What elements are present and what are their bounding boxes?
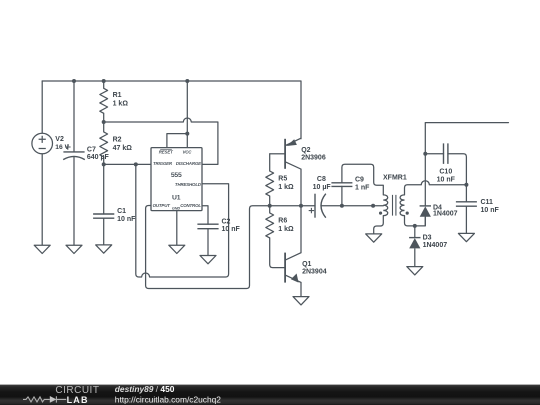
node R1-R2 [102,120,106,124]
svg-text:Q2: Q2 [301,147,310,154]
svg-text:D3: D3 [423,235,432,242]
wire C7 branch top [73,81,75,152]
svg-text:LAB: LAB [67,395,89,405]
svg-text:OUTPUT: OUTPUT [153,203,171,208]
wire transformer secondary bottom to diode node [405,216,426,226]
wire C9 bottom lead [341,186,343,205]
voltage source V2 [32,133,53,154]
resistor R6 [266,213,274,238]
wire CONTROL pin to C2 [202,206,208,224]
ground for C11 [458,233,474,241]
svg-text:C8: C8 [317,176,326,183]
wire C10 left lead [425,153,443,155]
resistor R5 [266,171,274,196]
svg-text:1 kΩ: 1 kΩ [113,100,129,107]
ground for C1 [96,245,112,253]
wire C11 top lead [465,185,467,202]
svg-text:DISCHARGE: DISCHARGE [176,161,202,166]
capacitor C1 [93,214,114,218]
svg-text:1 nF: 1 nF [355,185,370,192]
footer bar [0,385,540,405]
svg-text:C1: C1 [117,208,126,215]
node D3-D4-secondary [413,224,417,228]
svg-text:THRESHOLD: THRESHOLD [175,182,202,187]
wire RESET branch [167,134,187,148]
wire R1 top lead [103,81,105,88]
wire C7 branch bottom to ground [73,157,75,245]
transistor Q1 2N3904 (NPN) [285,206,301,297]
svg-text:R2: R2 [113,137,122,144]
wire C1 top lead [103,164,105,214]
logo resistor zigzag and diode icon [23,396,66,402]
wire R5 bottom lead [269,196,271,206]
svg-text:1 kΩ: 1 kΩ [278,184,294,191]
ground for transformer primary [366,234,382,242]
wire C9 top loop to transformer primary top [342,164,383,195]
svg-text:C10: C10 [439,168,452,175]
svg-text:V2: V2 [55,136,64,143]
node secondary-C10-C11 [464,183,468,187]
diode D3 1N4007 [409,226,420,267]
node VCC/top rail [185,79,189,83]
node C10 left [423,152,427,156]
resistor R2 [100,132,108,157]
svg-text:RESET: RESET [159,149,173,154]
svg-text:47 kΩ: 47 kΩ [113,145,133,152]
svg-text:GND: GND [172,206,180,210]
capacitor C2 [197,224,218,229]
capacitor C11 [456,202,477,206]
svg-text:C9: C9 [355,177,364,184]
svg-text:CONTROL: CONTROL [180,203,201,208]
wire V2 bottom lead to ground [41,154,43,245]
wire R2 bottom lead to node [103,157,105,165]
wire driver rail from C8 to transformer tap [322,205,384,207]
wire R6 top lead [269,206,271,213]
svg-text:destiny89 / 450: destiny89 / 450 [115,384,175,394]
transistor Q2 2N3906 (PNP) [270,138,301,206]
svg-text:555: 555 [171,172,182,179]
node R2-C1-TRIGGER [102,162,106,166]
resistor R1 [100,88,108,113]
svg-text:10 nF: 10 nF [481,207,500,214]
svg-text:VCC: VCC [182,149,192,154]
svg-text:2N3904: 2N3904 [302,268,327,275]
capacitor C10 [444,143,448,164]
svg-text:1N4007: 1N4007 [433,210,458,217]
svg-text:640 µF: 640 µF [87,154,110,161]
svg-text:2N3906: 2N3906 [301,154,326,161]
wire C2 bottom to ground [207,229,209,256]
diode D4 1N4007 [420,123,431,226]
ground for 555 GND pin [169,245,185,253]
wire top-right rail from D4 node [425,122,508,124]
transformer XFMR1 [379,195,409,216]
wire R1 bottom lead to node [103,113,105,122]
ground for Q1 emitter [293,297,309,305]
wire C11 bottom lead to ground [465,206,467,233]
wire TRIGGER node down and across to THRESHOLD (hops over OUTPUT drop) [136,164,229,277]
svg-text:10 nF: 10 nF [222,226,241,233]
svg-text:C7: C7 [87,146,96,153]
capacitor C9 [331,183,352,187]
wire V2 top lead [41,81,43,133]
svg-text:TRIGGER: TRIGGER [153,161,173,166]
svg-text:10 µF: 10 µF [313,184,332,191]
node R5-R6-output rail [268,204,272,208]
svg-text:http://circuitlab.com/c2uchq2: http://circuitlab.com/c2uchq2 [115,394,221,404]
op-amp/timer U1 555 box [151,148,202,211]
svg-text:U1: U1 [172,194,181,201]
wire C1 bottom lead to ground [103,218,105,245]
wire R5 top lead from Q2 base [269,154,271,171]
wire R6 bottom lead to Q1 base [270,238,285,268]
svg-text:Q1: Q1 [302,261,311,268]
ground for C2 [200,256,216,264]
capacitor C8 (polarized electrolytic) [309,194,326,218]
wire VCC riser from top rail to VCC pin [186,81,188,148]
wire OUTPUT pin loop to driver rail [146,206,315,289]
svg-text:1 kΩ: 1 kΩ [278,226,294,233]
node C9 tap [340,204,344,208]
node transformer tap [371,204,375,208]
svg-text:R5: R5 [278,175,287,182]
wire R2 top lead [103,122,105,132]
wire GND pin lead [176,211,178,246]
svg-text:C11: C11 [481,199,494,206]
wire transformer primary bottom to ground [374,216,384,234]
node C7/top rail [72,79,76,83]
node RESET branch [185,132,189,136]
ground for C7 [66,245,82,253]
svg-text:10 nF: 10 nF [437,176,456,183]
wire R1-R2 node to DISCHARGE pin (hops over VCC riser) [104,118,218,164]
node Q1-Q2 collectors [299,204,303,208]
svg-text:10 nF: 10 nF [117,216,136,223]
svg-text:XFMR1: XFMR1 [383,174,407,181]
svg-text:1N4007: 1N4007 [423,242,448,249]
svg-text:C2: C2 [222,219,231,226]
node R1/top rail [102,79,106,83]
ground for V2 [34,245,50,253]
capacitor C7 (polarized) [63,144,85,159]
wire top power rail from V2 to Q2 emitter [42,81,301,139]
svg-text:R6: R6 [278,217,287,224]
svg-text:R1: R1 [113,92,122,99]
wire C10 right lead down to output node [448,154,467,185]
node TRIGGER tee [134,162,138,166]
wire R2 bottom node to TRIGGER pin [104,163,151,165]
ground for D3 [407,267,423,275]
wire transformer secondary top (hops over D4 branch) [405,181,467,195]
